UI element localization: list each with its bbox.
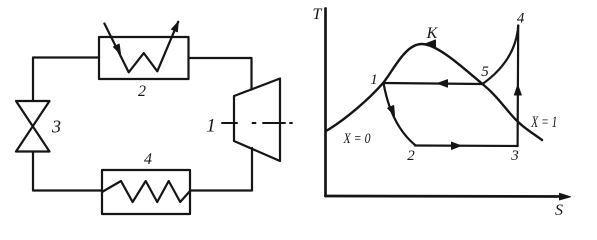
svg-text:X = 0: X = 0 — [343, 131, 371, 147]
S axis arrowhead — [560, 193, 571, 200]
T axis — [324, 9, 327, 197]
S axis — [326, 195, 567, 198]
svg-text:K: K — [426, 25, 439, 42]
process 4-5 superheat curve — [483, 26, 519, 85]
saturation dome — [326, 44, 542, 140]
svg-text:T: T — [313, 6, 323, 23]
evaporator 4 box — [102, 170, 190, 214]
arrowhead 2-3 — [452, 142, 462, 149]
svg-text:3: 3 — [510, 148, 519, 164]
compressor centerline — [222, 122, 292, 124]
compressor 1 — [234, 79, 280, 162]
wire — [189, 58, 252, 90]
svg-text:1: 1 — [206, 116, 216, 137]
arrowhead 3-4 — [514, 85, 521, 95]
process 3-4 compression line — [516, 26, 519, 147]
process 5-1 condensation line — [384, 83, 483, 84]
wire — [33, 152, 102, 191]
svg-text:X = 1: X = 1 — [531, 114, 558, 131]
svg-text:5: 5 — [481, 64, 489, 80]
svg-text:1: 1 — [370, 72, 378, 88]
condenser 2 coil with flow arrows — [104, 22, 178, 73]
svg-text:2: 2 — [138, 83, 146, 100]
process 2-3 evaporation line — [415, 144, 518, 147]
wire — [33, 58, 99, 102]
svg-text:4: 4 — [517, 10, 525, 26]
evaporator 4 zigzag — [102, 181, 190, 202]
svg-text:4: 4 — [144, 151, 152, 168]
condenser inlet arrowhead — [113, 44, 120, 54]
arrowhead 1-2 — [388, 106, 395, 116]
process 1-2 expansion curve — [384, 83, 416, 145]
condenser outlet arrowhead — [172, 22, 179, 32]
dome arrowhead near K — [425, 40, 436, 48]
svg-text:2: 2 — [407, 148, 415, 164]
svg-text:3: 3 — [51, 117, 61, 137]
expansion valve 3 — [16, 101, 50, 152]
wire — [190, 148, 252, 191]
svg-text:S: S — [555, 202, 563, 219]
arrowhead 5-1 — [438, 80, 448, 87]
condenser 2 box — [99, 37, 189, 79]
